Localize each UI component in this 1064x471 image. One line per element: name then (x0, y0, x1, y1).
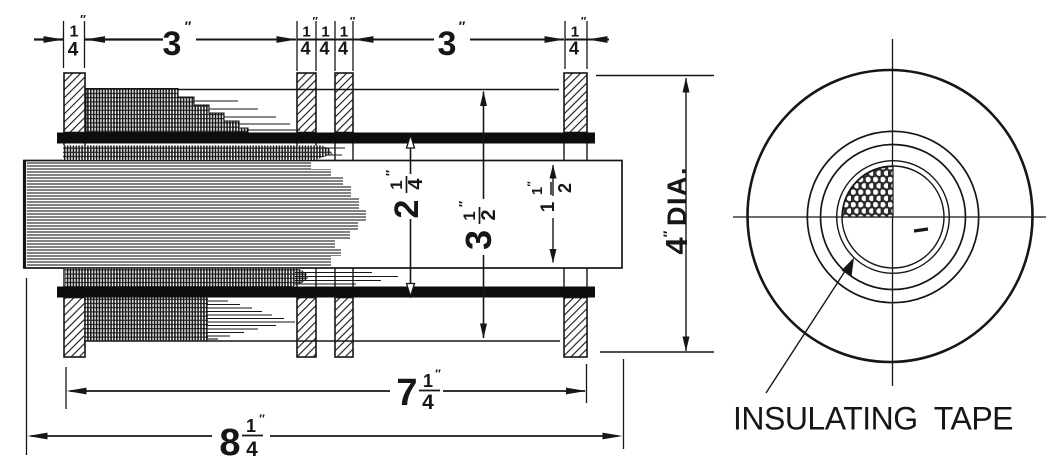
svg-text:4: 4 (246, 438, 258, 461)
leader line to tape (766, 265, 849, 393)
winding inner circle (821, 145, 966, 290)
lower mid winding band (65, 269, 308, 287)
tube winding fill (27, 162, 366, 266)
dim 7-1/4 line (70, 390, 390, 392)
winding bottom extension line (84, 340, 560, 342)
svg-text:″: ″ (185, 18, 192, 34)
svg-text:2: 2 (555, 183, 575, 193)
svg-text:2: 2 (388, 200, 426, 219)
tube body left edge (thick) (23, 161, 26, 269)
lower winding block (84, 298, 208, 342)
svg-text:2: 2 (478, 209, 500, 220)
svg-text:4: 4 (300, 39, 310, 59)
svg-text:4: 4 (68, 40, 79, 61)
svg-text:4: 4 (422, 391, 434, 414)
mid flange A (297, 73, 316, 357)
svg-text:3: 3 (438, 25, 457, 63)
dim 2-1/4 label (383, 168, 428, 224)
svg-text:4: 4 (405, 178, 427, 190)
dim 2-1/4 line (410, 146, 412, 174)
svg-text:1: 1 (538, 201, 559, 212)
dim 8-1/4 extension lines (26, 278, 28, 455)
dim 8-1/4 line (31, 435, 212, 437)
upper mid winding band (63, 146, 332, 161)
svg-text:1: 1 (460, 211, 479, 220)
mid fraction bars (297, 39, 353, 41)
svg-text:7: 7 (396, 372, 417, 414)
svg-text:″: ″ (80, 13, 86, 27)
svg-text:″: ″ (350, 15, 356, 27)
svg-text:4: 4 (319, 39, 329, 59)
insulating tape ring outer (837, 161, 950, 274)
dim 1-1/2 line (552, 165, 554, 196)
svg-text:INSULATING TAPE: INSULATING TAPE (733, 401, 1016, 437)
insulating tape ring inner (842, 166, 944, 268)
svg-text:1: 1 (387, 180, 406, 189)
lower winding taper lines (206, 300, 228, 302)
svg-text:″: ″ (435, 367, 441, 381)
tube body outline (24, 161, 622, 269)
upper winding taper lines (194, 100, 238, 102)
svg-text:1: 1 (246, 416, 256, 436)
svg-text:4: 4 (569, 39, 579, 59)
svg-text:3: 3 (163, 25, 182, 63)
svg-text:1: 1 (423, 371, 433, 391)
top extension lines (63, 21, 65, 68)
dim 3 inch left line (196, 39, 296, 41)
outer circle (748, 70, 1033, 362)
winding outer circle (807, 131, 978, 302)
svg-text:1: 1 (70, 24, 79, 41)
dim 3 inch right (354, 36, 374, 43)
dia extension line top (596, 75, 714, 77)
small mark near center (914, 229, 928, 231)
svg-text:3: 3 (458, 230, 499, 250)
svg-text:″: ″ (383, 170, 398, 176)
section centerline horizontal (733, 216, 1046, 218)
section centerline vertical (892, 39, 894, 386)
svg-text:DIA.: DIA. (662, 166, 692, 226)
dia extension line bottom (600, 351, 714, 353)
svg-text:″: ″ (526, 181, 538, 187)
dim 4 DIA label (659, 151, 694, 255)
winding top extension line (86, 89, 559, 91)
svg-text:″: ″ (581, 15, 587, 27)
dim 3-1/2 line (483, 92, 485, 200)
svg-text:8: 8 (219, 422, 240, 464)
dim 4 DIA line (685, 78, 687, 351)
upper tube wall (57, 133, 595, 144)
svg-text:″: ″ (459, 18, 466, 34)
dim 1/4 left: lines and arrows (34, 38, 63, 40)
right flange (564, 73, 587, 357)
wire section quarter sector (843, 167, 894, 218)
svg-text:″: ″ (660, 230, 676, 237)
svg-text:″: ″ (456, 201, 471, 207)
dim 7-1/4 extension lines (65, 367, 67, 409)
left flange (64, 73, 85, 357)
upper winding block (86, 89, 248, 133)
svg-text:4: 4 (338, 39, 348, 59)
lower tube wall (57, 287, 595, 298)
svg-text:1: 1 (529, 187, 546, 195)
dim 3-1/2 label (456, 199, 501, 255)
svg-text:″: ″ (259, 412, 265, 426)
svg-text:″: ″ (312, 15, 318, 27)
mid flange B (335, 73, 353, 357)
dim 1-1/2 label (526, 180, 575, 212)
svg-text:4: 4 (659, 237, 694, 255)
